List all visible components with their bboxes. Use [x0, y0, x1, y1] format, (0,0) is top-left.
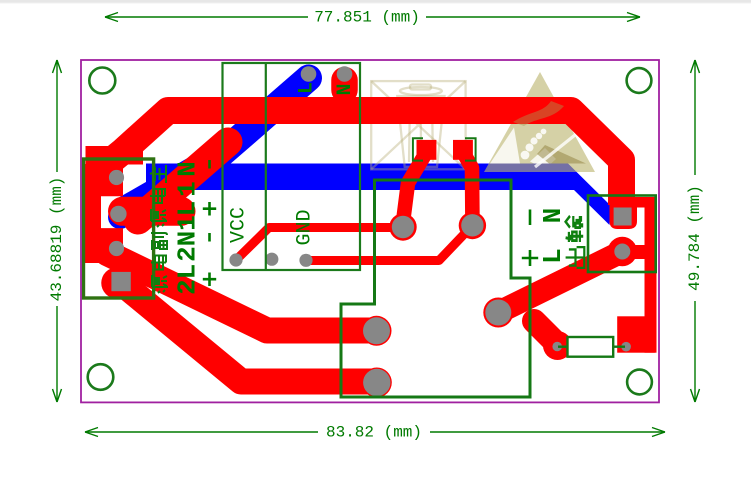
svg-text:N: N [173, 161, 203, 177]
white slash [535, 135, 575, 167]
pad N-in stub capsule [331, 80, 358, 90]
hole mount top-left [89, 68, 115, 94]
pad relay coil B [453, 140, 473, 160]
hole mount top-right [627, 68, 652, 93]
hole mount bottom-left [88, 364, 114, 390]
dim bottom line [85, 431, 665, 433]
svg-text:2: 2 [173, 246, 203, 262]
hole R1 left [552, 342, 562, 352]
svg-text:1: 1 [173, 181, 203, 197]
svg-text:77.851 (mm): 77.851 (mm) [314, 9, 420, 27]
bracket coil B [465, 138, 476, 160]
hole relay left1 [363, 317, 390, 344]
outline resistor R1 [568, 337, 614, 357]
wire blue horizontal band [146, 164, 610, 226]
wire GND thin [306, 226, 472, 261]
svg-text:N: N [334, 83, 357, 95]
label plus L2 [203, 273, 216, 287]
hole relay left2 [363, 369, 390, 396]
connector J1 top stub [86, 146, 144, 165]
outline module U1 [223, 63, 361, 270]
hole N-in via [337, 66, 353, 82]
pad output N square [614, 208, 632, 226]
svg-text:N: N [538, 208, 568, 224]
pad collar relay K1 pin left1 [362, 316, 392, 346]
svg-text:L: L [173, 201, 203, 217]
hole R1 right [621, 342, 631, 352]
wire red right vertical bar [645, 197, 657, 353]
pad J1-4 square [111, 272, 130, 291]
label 输 (output word char1) [566, 216, 584, 242]
bracket coil A [413, 138, 423, 160]
wire stub diagonal with round tip [138, 142, 228, 220]
hole J1-3 [109, 241, 124, 256]
pad collar relay K1 common [483, 298, 513, 328]
svg-text:49.784 (mm): 49.784 (mm) [686, 185, 704, 291]
svg-text:83.82 (mm): 83.82 (mm) [326, 424, 422, 442]
hole relay coil B [461, 214, 483, 236]
label minus N1 [208, 160, 211, 169]
label minus out [529, 210, 532, 226]
hole U1 pin GND [299, 254, 312, 267]
svg-text:L: L [296, 82, 319, 94]
pad J1-2 capsule + arm [123, 197, 182, 226]
wire coil B down [463, 152, 472, 218]
wire red foot near R1 [617, 316, 655, 352]
hole U1 pin mid [265, 253, 278, 266]
svg-text:N: N [173, 231, 203, 247]
wire coil A down [403, 152, 427, 222]
outline output connector J2 [588, 196, 656, 273]
wire VCC thin [236, 228, 396, 261]
watermark ESD triangle base fill [484, 72, 595, 172]
white palm [530, 148, 556, 164]
dark arm wedge right [537, 145, 586, 164]
wire link L pad to bar [627, 245, 646, 259]
label plus out [522, 250, 538, 266]
label plus L1 [203, 202, 216, 216]
pad J1-4 capsule [117, 267, 125, 299]
watermark ESD hand details over copper [490, 101, 586, 167]
pad N-out copper region [610, 197, 657, 208]
line U1 inner edge [265, 63, 267, 270]
white wedge lower-left [490, 128, 520, 164]
label 源 (main char3) [151, 209, 167, 227]
hole mount bottom-right [627, 370, 652, 395]
wire top band: from J1 up-right, across, bend down to N pad [100, 111, 622, 206]
hole relay common [485, 300, 511, 326]
watermark WEEE bin [371, 81, 465, 169]
label 源 (aux char3) [152, 275, 168, 293]
board outline [81, 60, 659, 402]
pad J1-2 bottom copper ring [108, 205, 132, 229]
dim left line [56, 60, 58, 402]
pad collar coil B bottom [459, 212, 486, 239]
svg-text:2: 2 [173, 279, 203, 295]
connector J1 copper block with notch [85, 164, 123, 263]
label minus N2 [208, 233, 211, 242]
svg-text:GND: GND [294, 209, 317, 245]
svg-text:VCC: VCC [228, 207, 251, 243]
label 副 (aux char1) [151, 233, 167, 250]
pad collar relay K1 pin left2 [362, 368, 392, 398]
hole U1 pin VCC [229, 253, 242, 266]
pad collar output L [608, 237, 637, 266]
drawn plus/minus signs [203, 160, 538, 286]
label 出 (output word char2) [566, 247, 585, 268]
hole relay coil A [392, 216, 414, 238]
pad relay coil A [417, 140, 437, 160]
svg-text:L: L [538, 248, 568, 264]
label 电 (main char2) [150, 189, 165, 203]
wire blue diagonal L-input to pad2 [126, 78, 309, 209]
wire branch to R1 via [534, 321, 556, 343]
wire output L diagonal [498, 252, 622, 313]
lead R1 right [613, 346, 625, 348]
hole J1-1 [109, 170, 124, 185]
top window strip [0, 0, 751, 3]
outline connector J1 [84, 159, 154, 298]
outline relay K1 [341, 180, 530, 397]
svg-text:L: L [173, 264, 203, 280]
dim top line [105, 16, 640, 18]
pad blob R1 left [543, 331, 572, 360]
arm tint over red band [513, 101, 564, 126]
svg-text:1: 1 [173, 215, 203, 231]
hole J1-2 [110, 206, 126, 222]
fingers [521, 151, 530, 160]
hole output L [614, 244, 630, 260]
hole L-in via [301, 66, 317, 82]
lead R1 left [558, 346, 568, 348]
svg-text:43.68819 (mm): 43.68819 (mm) [48, 177, 66, 302]
label 主 (main char1) [150, 165, 166, 183]
label 电 (aux char2) [151, 256, 166, 270]
wire relay out 1 [107, 253, 376, 331]
pad collar coil A bottom [389, 213, 416, 240]
dim right line [694, 60, 696, 402]
wire relay out 2 [118, 280, 376, 382]
